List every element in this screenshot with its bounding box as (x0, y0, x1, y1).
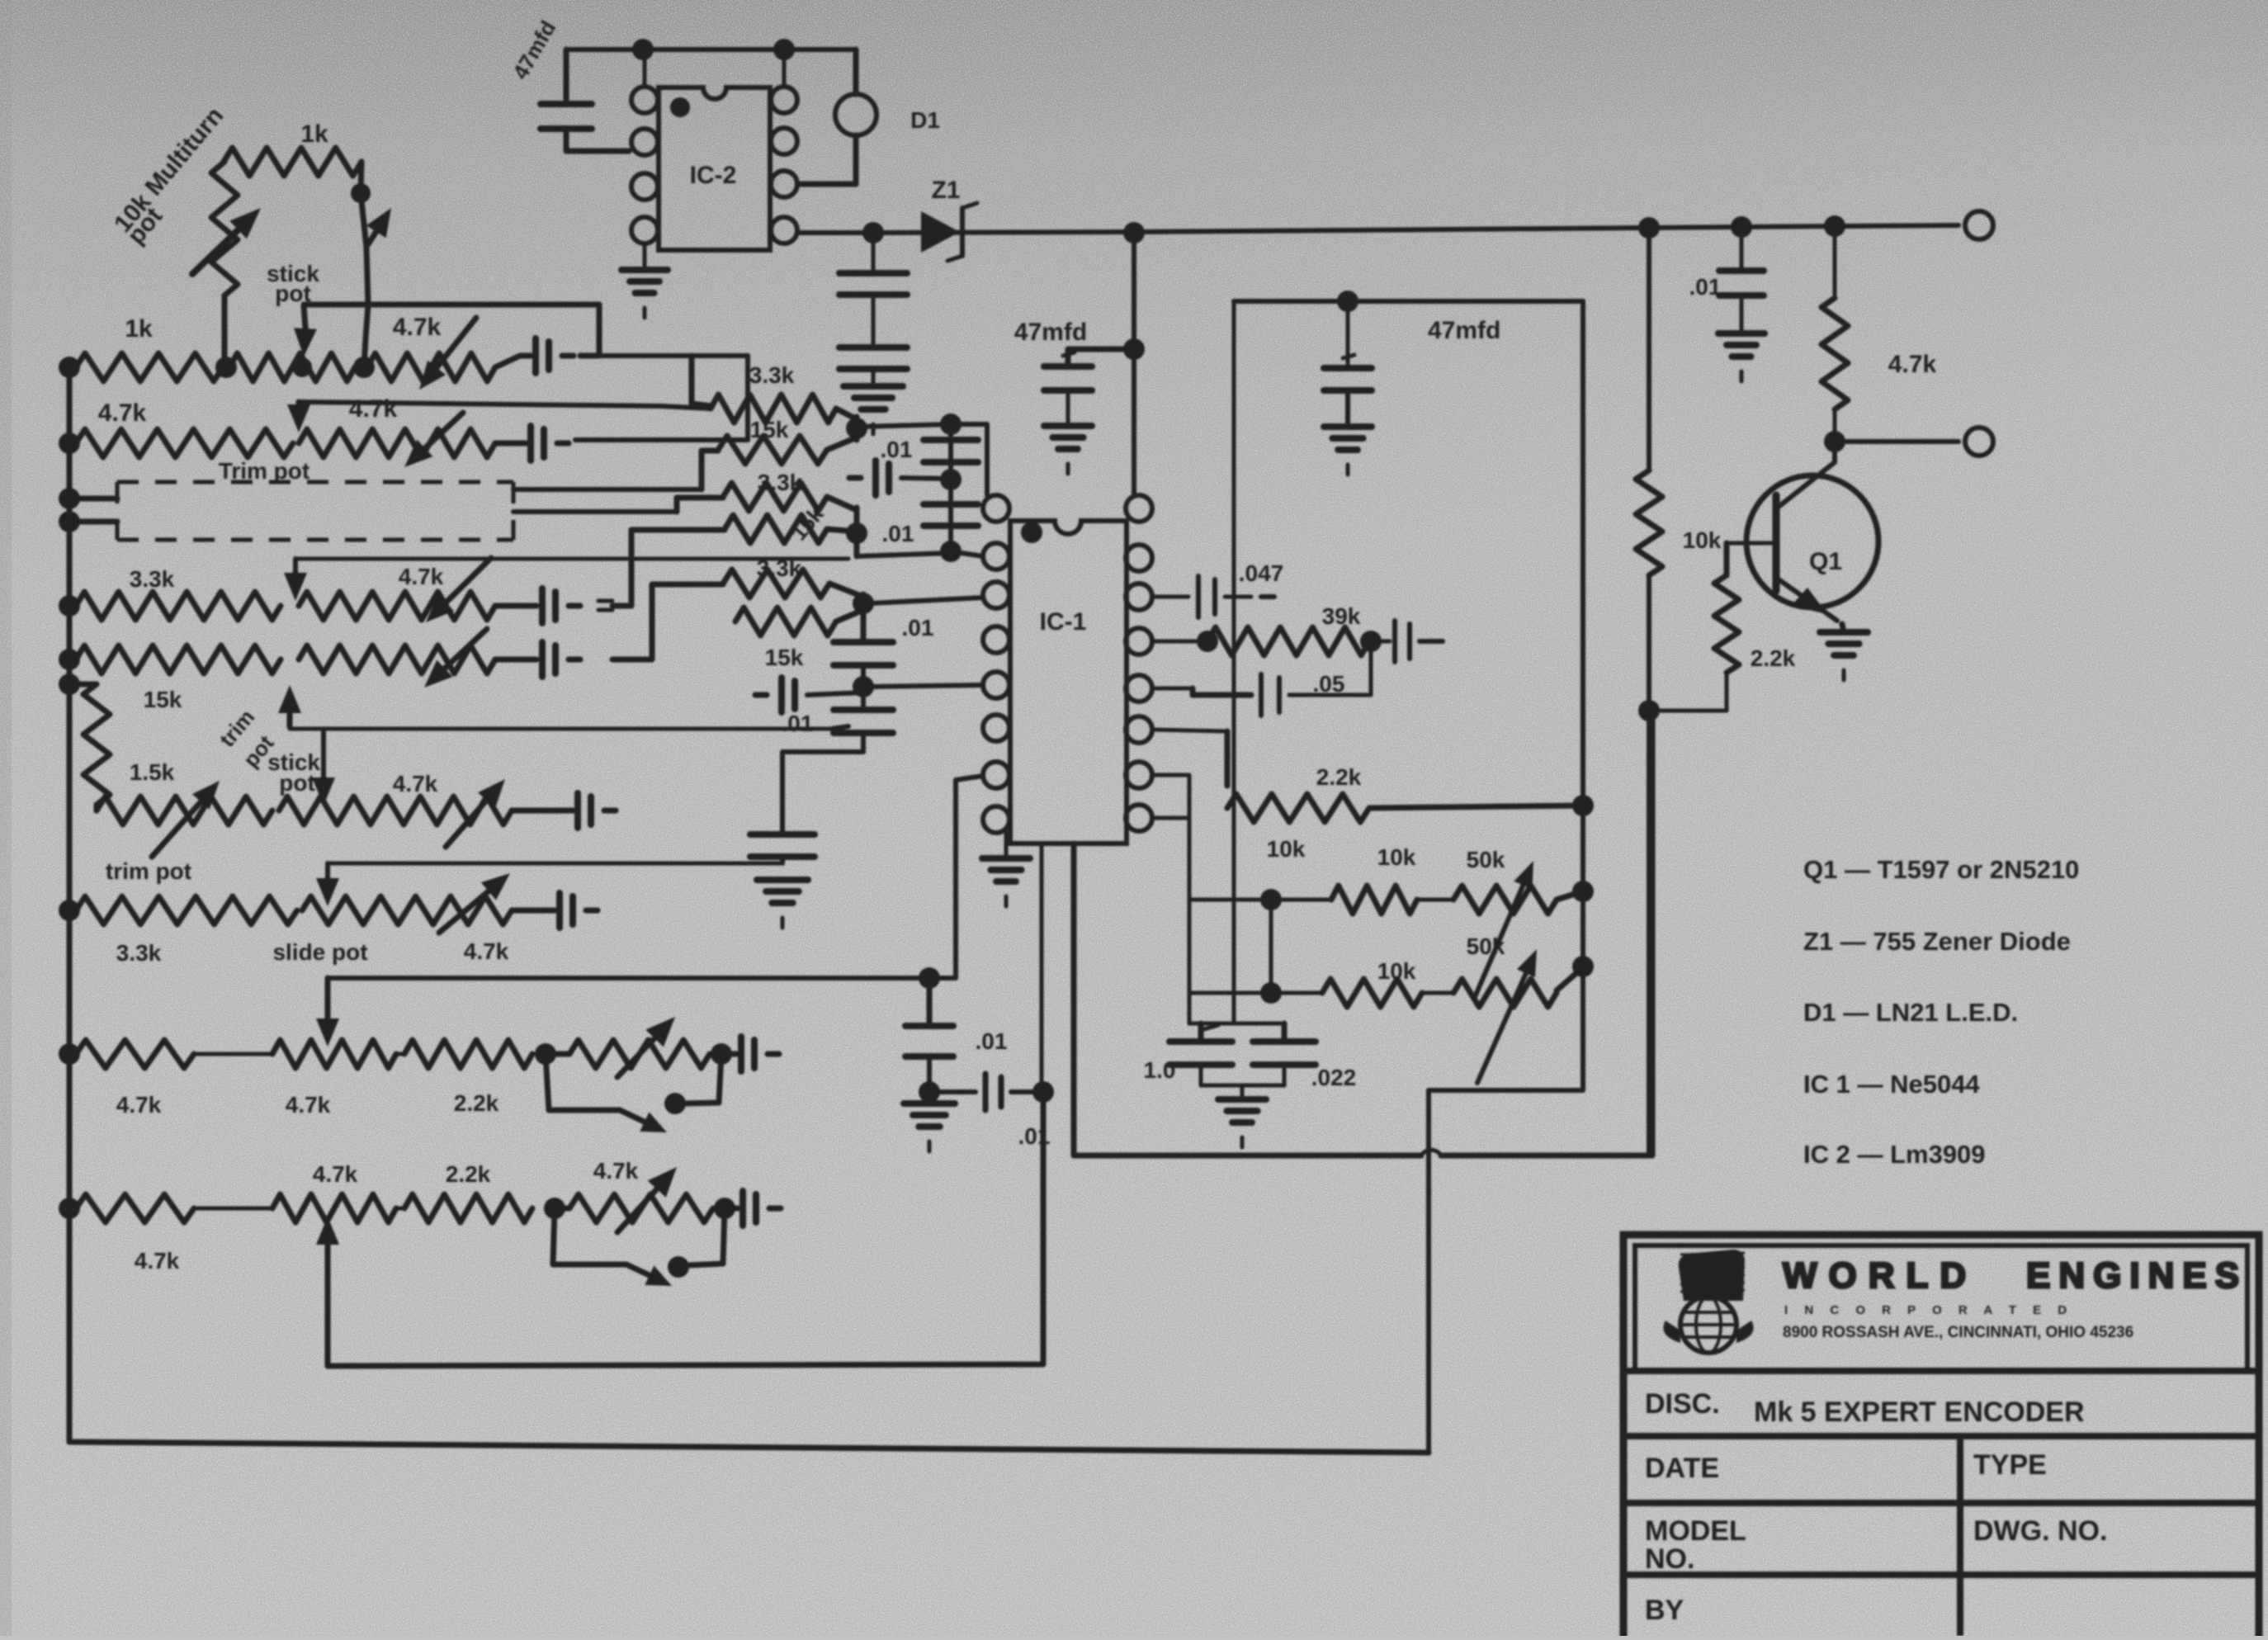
svg-text:slide pot: slide pot (272, 939, 367, 965)
svg-text:4.7k: 4.7k (1888, 351, 1937, 378)
svg-text:10k: 10k (1683, 527, 1722, 553)
svg-text:NO.: NO. (1645, 1543, 1694, 1575)
svg-text:4.7k: 4.7k (286, 1092, 331, 1118)
svg-text:.01: .01 (1689, 274, 1722, 300)
svg-text:2.2k: 2.2k (1316, 764, 1362, 790)
svg-text:.01: .01 (881, 437, 913, 462)
svg-text:4.7k: 4.7k (399, 564, 444, 589)
svg-text:I N C O R P O R A T: I N C O R P O R A T E D (1784, 1303, 2073, 1317)
svg-text:4.7k: 4.7k (393, 314, 442, 341)
svg-text:4.7k: 4.7k (135, 1248, 180, 1274)
svg-text:IC-2: IC-2 (690, 162, 737, 189)
svg-text:50k: 50k (1467, 933, 1505, 959)
svg-text:1.5k: 1.5k (130, 759, 175, 785)
svg-text:IC-1: IC-1 (1040, 608, 1087, 636)
svg-text:4.7k: 4.7k (313, 1161, 358, 1187)
svg-text:2.2k: 2.2k (1751, 645, 1796, 671)
svg-text:DISC.: DISC. (1645, 1388, 1720, 1420)
svg-text:15k: 15k (144, 687, 182, 712)
svg-text:3.3k: 3.3k (757, 555, 802, 581)
svg-text:4.7k: 4.7k (464, 938, 509, 964)
svg-text:.01: .01 (882, 521, 914, 546)
svg-text:.05: .05 (1313, 671, 1345, 697)
svg-text:.01: .01 (782, 711, 814, 736)
svg-text:2.2k: 2.2k (454, 1090, 499, 1116)
svg-text:.01: .01 (902, 615, 934, 640)
svg-text:DWG. NO.: DWG. NO. (1973, 1515, 2107, 1547)
svg-text:10k: 10k (1267, 836, 1306, 862)
svg-text:D1 — LN21 L.E.D.: D1 — LN21 L.E.D. (1803, 998, 2018, 1027)
svg-text:Q1: Q1 (1809, 548, 1842, 575)
svg-text:.047: .047 (1239, 560, 1284, 586)
svg-text:IC 2 — Lm3909: IC 2 — Lm3909 (1803, 1140, 1986, 1169)
svg-text:39k: 39k (1322, 603, 1361, 629)
svg-text:10k: 10k (1377, 844, 1416, 870)
svg-text:MODEL: MODEL (1645, 1515, 1746, 1547)
svg-text:Mk 5 EXPERT ENCODER: Mk 5 EXPERT ENCODER (1754, 1397, 2085, 1428)
svg-text:.01: .01 (976, 1028, 1008, 1054)
svg-text:1.0: 1.0 (1144, 1057, 1176, 1083)
svg-text:47mfd: 47mfd (1428, 317, 1500, 344)
svg-text:.022: .022 (1311, 1065, 1357, 1090)
svg-text:DATE: DATE (1645, 1453, 1719, 1484)
svg-text:Z1: Z1 (931, 177, 960, 204)
svg-text:.01: .01 (1018, 1123, 1051, 1149)
svg-text:3.3k: 3.3k (749, 362, 795, 388)
svg-text:pot: pot (275, 281, 311, 306)
svg-text:Trim pot: Trim pot (219, 458, 309, 484)
svg-text:4.7k: 4.7k (116, 1092, 162, 1118)
svg-text:BY: BY (1645, 1595, 1684, 1626)
svg-text:pot: pot (279, 770, 315, 796)
svg-text:ENGINES: ENGINES (2026, 1255, 2247, 1296)
svg-text:50k: 50k (1467, 847, 1505, 872)
svg-text:IC 1 — Ne5044: IC 1 — Ne5044 (1803, 1070, 1980, 1099)
svg-text:8900 ROSSASH AVE., CINCINNATI,: 8900 ROSSASH AVE., CINCINNATI, OHIO 4523… (1783, 1324, 2133, 1341)
svg-text:2.2k: 2.2k (446, 1161, 491, 1187)
svg-text:3.3k: 3.3k (130, 566, 175, 592)
svg-text:10k: 10k (1377, 958, 1416, 984)
svg-text:WORLD: WORLD (1783, 1255, 1977, 1296)
svg-text:1k: 1k (300, 121, 328, 148)
svg-text:4.7k: 4.7k (393, 771, 438, 796)
svg-text:4.7k: 4.7k (349, 395, 398, 423)
svg-text:Q1 — T1597 or 2N5210: Q1 — T1597 or 2N5210 (1803, 855, 2079, 884)
svg-text:47mfd: 47mfd (1014, 319, 1087, 346)
svg-text:1k: 1k (125, 315, 153, 343)
svg-text:4.7k: 4.7k (593, 1158, 639, 1184)
svg-text:3.3k: 3.3k (758, 470, 803, 495)
svg-text:D1: D1 (910, 107, 940, 133)
svg-text:trim pot: trim pot (106, 858, 191, 884)
svg-text:15k: 15k (750, 417, 789, 442)
svg-text:4.7k: 4.7k (98, 399, 147, 427)
svg-text:TYPE: TYPE (1973, 1449, 2047, 1481)
svg-text:3.3k: 3.3k (116, 940, 162, 966)
svg-text:15k: 15k (765, 645, 804, 670)
svg-text:Z1 — 755 Zener Diode: Z1 — 755 Zener Diode (1803, 927, 2071, 956)
